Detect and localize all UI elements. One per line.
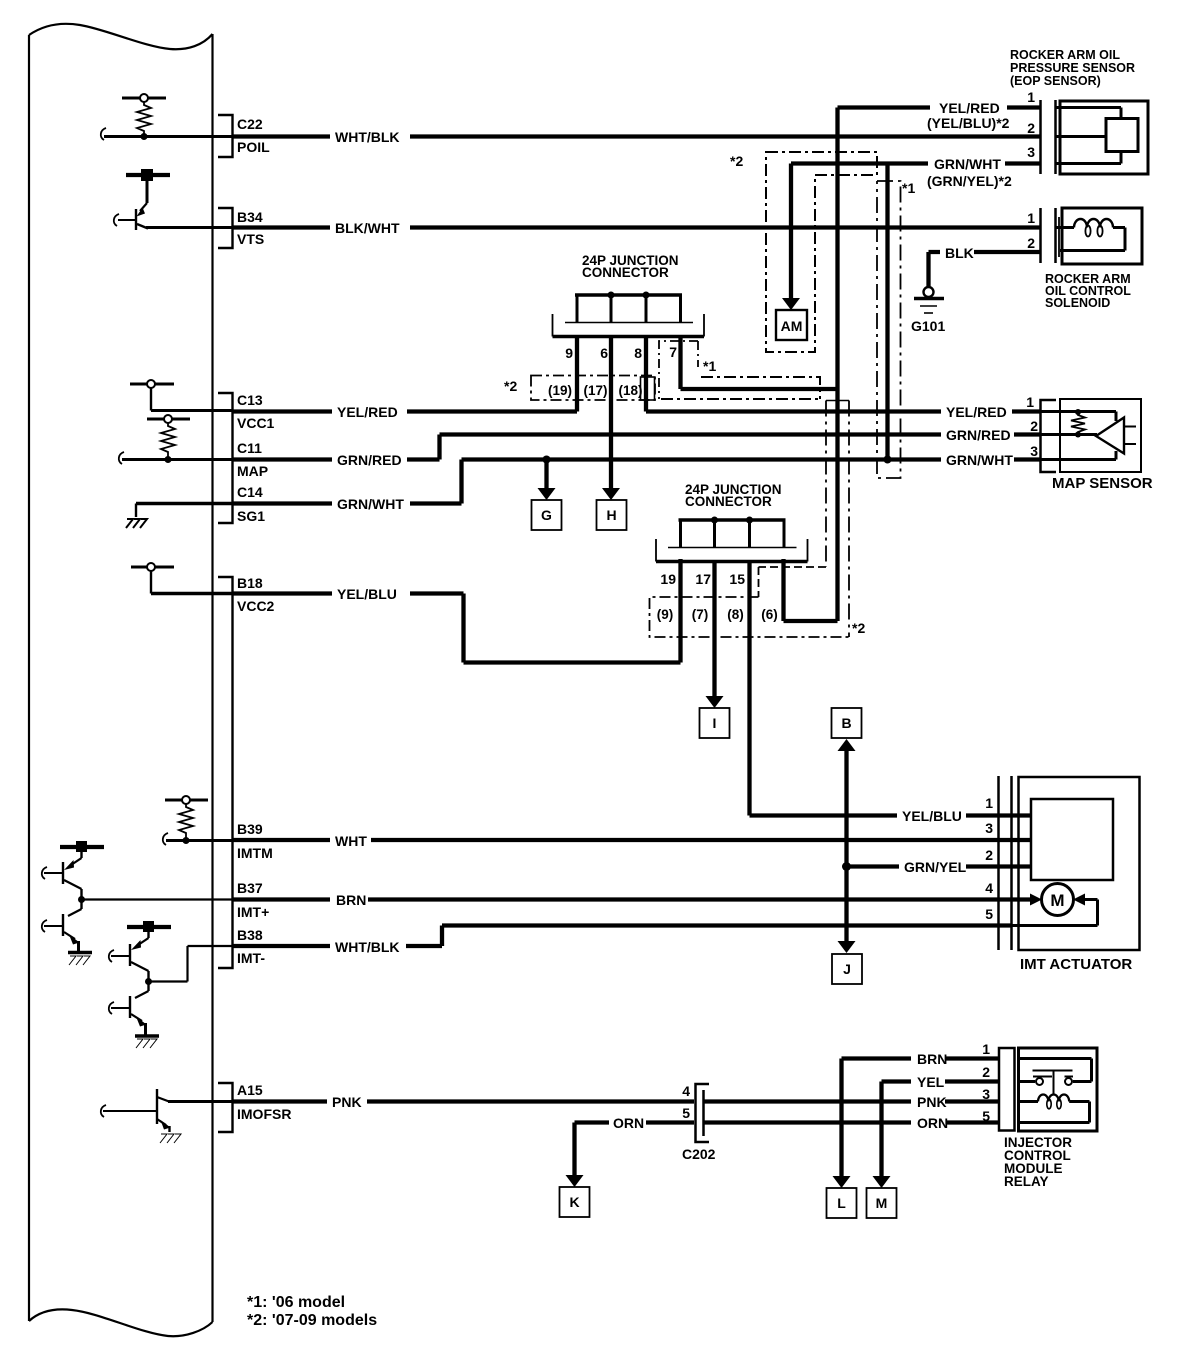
wire G branch xyxy=(544,460,548,490)
wire C14 internal xyxy=(136,502,233,506)
wire BLK to G101 xyxy=(929,250,1042,254)
ground at C14 (SG1) xyxy=(126,519,147,528)
svg-text:*2: *2 xyxy=(730,153,743,169)
svg-text:(EOP SENSOR): (EOP SENSOR) xyxy=(1010,74,1101,88)
wire B38 internal xyxy=(149,946,233,982)
wire B/J vertical with arrows xyxy=(844,750,848,944)
svg-text:C13: C13 xyxy=(237,392,263,408)
wire YEL/RED (EOP sensor pin 1) xyxy=(838,105,1042,109)
svg-text:C14: C14 xyxy=(237,484,263,500)
wire YEL (relay pin 2 to M) xyxy=(882,1079,1000,1083)
IMT actuator connector xyxy=(999,776,1012,950)
node GRN/WHT junction at MAP line xyxy=(884,456,892,464)
svg-text:MAP SENSOR: MAP SENSOR xyxy=(1052,475,1153,492)
connector C202 xyxy=(696,1084,710,1142)
connector box G xyxy=(532,500,562,530)
svg-text:VCC1: VCC1 xyxy=(237,415,275,431)
svg-text:A15: A15 xyxy=(237,1082,263,1098)
svg-text:YEL/BLU: YEL/BLU xyxy=(902,808,962,824)
node G junction xyxy=(543,456,551,464)
connector bracket C22 xyxy=(218,115,233,157)
svg-text:8: 8 xyxy=(634,345,642,361)
wire AM branch xyxy=(789,164,793,300)
connector bracket C13/C11/C14 xyxy=(218,393,233,523)
svg-text:2: 2 xyxy=(1027,120,1035,136)
pass-through pair on trunk xyxy=(826,400,849,402)
connector box I xyxy=(700,708,730,738)
svg-text:PNK: PNK xyxy=(917,1094,947,1110)
svg-text:PRESSURE SENSOR: PRESSURE SENSOR xyxy=(1010,61,1135,75)
svg-text:*2: '07-09 models: *2: '07-09 models xyxy=(247,1312,377,1329)
svg-text:(19): (19) xyxy=(548,383,572,398)
wire BRN (relay pin 1 to L) xyxy=(842,1056,1000,1060)
svg-text:3: 3 xyxy=(1030,443,1038,459)
wire pin 9 drop xyxy=(575,337,579,412)
wire C13 internal xyxy=(151,409,233,412)
connector box H xyxy=(597,500,627,530)
wire A15 internal xyxy=(168,1100,233,1103)
EOP sensor title xyxy=(1010,48,1135,88)
node MAP resistor junctions xyxy=(1075,409,1081,415)
svg-text:M: M xyxy=(876,1195,888,1211)
svg-text:(YEL/BLU)*2: (YEL/BLU)*2 xyxy=(927,115,1010,131)
wire GRN/WHT (C14 SG1) xyxy=(233,460,1042,504)
wire pin 17 drop to I xyxy=(712,562,716,698)
svg-text:CONNECTOR: CONNECTOR xyxy=(685,494,772,509)
connector box K xyxy=(560,1187,590,1217)
svg-text:G: G xyxy=(541,507,552,523)
svg-text:(GRN/YEL)*2: (GRN/YEL)*2 xyxy=(927,173,1012,189)
svg-text:G101: G101 xyxy=(911,318,945,334)
svg-text:5: 5 xyxy=(682,1105,690,1121)
wire B34 internal xyxy=(146,226,233,229)
relay pin numbers xyxy=(982,1041,990,1124)
svg-text:B18: B18 xyxy=(237,575,263,591)
svg-text:WHT/BLK: WHT/BLK xyxy=(335,129,400,145)
connector bracket B18/B39/B37/B38 xyxy=(218,577,233,968)
svg-text:IMT+: IMT+ xyxy=(237,904,269,920)
rocker arm oil control solenoid (coil) xyxy=(1056,208,1143,264)
node GRN/YEL junction xyxy=(842,862,851,871)
connector bracket A15 xyxy=(218,1083,233,1132)
svg-text:GRN/YEL: GRN/YEL xyxy=(904,859,967,875)
svg-text:1: 1 xyxy=(985,795,993,811)
pin label B37 / IMT+ xyxy=(237,880,269,920)
svg-text:7: 7 xyxy=(669,344,677,360)
alternate pins box (19)(17)(18) xyxy=(531,376,655,401)
svg-text:GRN/RED: GRN/RED xyxy=(946,427,1011,443)
svg-text:5: 5 xyxy=(985,906,993,922)
svg-text:*1: '06 model: *1: '06 model xyxy=(247,1294,345,1311)
terminal VCC2 xyxy=(131,563,174,594)
pin label C14 / SG1 xyxy=(237,484,265,524)
svg-text:3: 3 xyxy=(985,820,993,836)
svg-text:6: 6 xyxy=(600,345,608,361)
alternate pins box (9)(7)(8)(6) xyxy=(650,597,849,637)
svg-text:M: M xyxy=(1050,891,1064,910)
motor M in IMT actuator xyxy=(1030,894,1042,906)
svg-text:9: 9 xyxy=(565,345,573,361)
node junction connector 2 bus dots xyxy=(711,517,718,524)
svg-text:YEL/RED: YEL/RED xyxy=(337,404,398,420)
MAP sensor pin numbers xyxy=(1026,394,1038,459)
resistor pull-up at B39 xyxy=(165,796,208,840)
wire YEL/RED (C13 VCC1 to junction connector pin 9) xyxy=(233,409,578,413)
wire GRN/YEL branch to IMT pin 2 xyxy=(847,864,1032,868)
svg-text:ORN: ORN xyxy=(613,1115,644,1131)
svg-text:BRN: BRN xyxy=(917,1051,947,1067)
svg-text:SG1: SG1 xyxy=(237,508,265,524)
connector box B xyxy=(832,708,862,738)
svg-text:RELAY: RELAY xyxy=(1004,1174,1049,1189)
svg-text:(8): (8) xyxy=(727,607,744,622)
svg-text:VTS: VTS xyxy=(237,231,264,247)
svg-text:GRN/WHT: GRN/WHT xyxy=(946,452,1013,468)
svg-text:YEL/RED: YEL/RED xyxy=(946,404,1007,420)
wire B39 internal xyxy=(166,839,233,842)
svg-text:(9): (9) xyxy=(657,607,674,622)
IMT actuator title xyxy=(1020,956,1132,973)
wire WHT/BLK (B38 IMT- to IMT actuator pin 5) xyxy=(233,926,1013,947)
svg-text:BLK: BLK xyxy=(945,245,974,261)
svg-text:GRN/WHT: GRN/WHT xyxy=(337,496,404,512)
svg-text:2: 2 xyxy=(1027,235,1035,251)
svg-text:BRN: BRN xyxy=(336,892,366,908)
wire PNK (A15 IMOFSR to relay pin 3) xyxy=(233,1099,1000,1103)
svg-text:L: L xyxy=(837,1195,846,1211)
connector box M xyxy=(867,1188,897,1218)
wire GRN/WHT label at MAP xyxy=(946,427,1013,468)
wire BLK/WHT (B34 VTS to solenoid) xyxy=(233,225,1042,229)
svg-text:17: 17 xyxy=(695,571,711,587)
svg-text:J: J xyxy=(843,961,851,977)
pin numbers 9 6 8 7 xyxy=(565,344,677,361)
svg-text:IMT ACTUATOR: IMT ACTUATOR xyxy=(1020,956,1132,973)
svg-text:(7): (7) xyxy=(692,607,709,622)
connector box L xyxy=(827,1188,857,1218)
svg-text:*2: *2 xyxy=(852,620,865,636)
svg-text:*1: *1 xyxy=(703,358,716,374)
svg-text:POIL: POIL xyxy=(237,139,270,155)
svg-text:15: 15 xyxy=(729,571,745,587)
svg-text:ROCKER ARM OIL: ROCKER ARM OIL xyxy=(1010,48,1120,62)
alternate enclosure *2 around AM xyxy=(766,152,877,352)
svg-text:GRN/WHT: GRN/WHT xyxy=(934,156,1001,172)
node C22 junction xyxy=(141,133,148,140)
svg-text:I: I xyxy=(713,715,717,731)
svg-text:WHT: WHT xyxy=(335,833,367,849)
solenoid pin numbers xyxy=(1027,210,1035,251)
alternate enclosure around pin 7 xyxy=(659,341,698,399)
svg-text:YEL/RED: YEL/RED xyxy=(939,100,1000,116)
MAP sensor connector xyxy=(1041,400,1057,472)
svg-text:B39: B39 xyxy=(237,821,263,837)
node B39 junction xyxy=(183,837,190,844)
svg-text:*2: *2 xyxy=(504,378,517,394)
svg-text:IMTM: IMTM xyxy=(237,845,273,861)
svg-text:4: 4 xyxy=(985,880,993,896)
wire K branch xyxy=(572,1123,576,1177)
IMT actuator pin numbers xyxy=(985,795,993,922)
svg-text:BLK/WHT: BLK/WHT xyxy=(335,220,400,236)
connector box J xyxy=(832,954,862,984)
wire C11 internal xyxy=(122,458,233,461)
wire pin 15 drop to IMT pin 1 xyxy=(750,562,898,816)
EOP sensor pin numbers xyxy=(1027,89,1035,160)
svg-text:H: H xyxy=(606,507,616,523)
terminal VCC1 xyxy=(130,380,174,411)
pin label B38 / IMT- xyxy=(237,927,265,966)
svg-text:SOLENOID: SOLENOID xyxy=(1045,296,1110,310)
node Q3 collector junction xyxy=(145,978,152,985)
wire B37 internal xyxy=(82,898,233,900)
transistor pair Q3/Q4 (IMT-) xyxy=(109,921,171,1048)
connector box AM xyxy=(776,310,807,340)
svg-text:1: 1 xyxy=(1027,210,1035,226)
pin numbers 19 17 15 xyxy=(660,571,745,587)
svg-text:B: B xyxy=(841,715,851,731)
svg-text:YEL: YEL xyxy=(917,1074,945,1090)
wire GRN/WHT (EOP sensor pin 3) xyxy=(791,161,1041,165)
wire WHT (B39 IMTM to IMT actuator pin 3) xyxy=(233,838,1032,842)
svg-text:VCC2: VCC2 xyxy=(237,598,275,614)
svg-text:YEL/BLU: YEL/BLU xyxy=(337,586,397,602)
pin label B34 / VTS xyxy=(237,209,264,247)
svg-text:AM: AM xyxy=(781,318,803,334)
24P junction connector 1 xyxy=(553,295,705,337)
svg-text:C22: C22 xyxy=(237,116,263,132)
node junction connector 1 bus dots xyxy=(608,292,615,299)
wire GRN/WHT vertical to MAP sensor line xyxy=(885,164,889,460)
svg-text:ORN: ORN xyxy=(917,1115,948,1131)
svg-text:IMOFSR: IMOFSR xyxy=(237,1106,291,1122)
node C11 junction xyxy=(165,456,172,463)
svg-text:1: 1 xyxy=(1027,89,1035,105)
svg-text:B37: B37 xyxy=(237,880,263,896)
pin label A15 / IMOFSR xyxy=(237,1082,291,1122)
pin label B18 / VCC2 xyxy=(237,575,275,614)
svg-text:2: 2 xyxy=(1030,418,1038,434)
EOP sensor (pressure switch) xyxy=(1056,101,1149,174)
injector control module relay xyxy=(1019,1048,1098,1131)
svg-text:IMT-: IMT- xyxy=(237,950,265,966)
transistor at A15 xyxy=(101,1089,181,1143)
notes xyxy=(247,1294,377,1329)
wire C22 internal xyxy=(104,135,233,138)
svg-text:B38: B38 xyxy=(237,927,263,943)
pass-through box at pin 8 drop xyxy=(641,377,655,400)
MAP sensor title xyxy=(1052,475,1153,492)
pin label C13 / VCC1 xyxy=(237,392,275,431)
svg-text:5: 5 xyxy=(982,1108,990,1124)
svg-text:*1: *1 xyxy=(902,180,915,196)
pin label B39 / IMTM xyxy=(237,821,273,861)
resistor pull-up at C11 xyxy=(147,415,190,459)
svg-text:4: 4 xyxy=(682,1083,690,1099)
pin label C22 / POIL xyxy=(237,116,270,155)
wire ORN (C202 pin 5 to relay pin 5 and K) xyxy=(575,1120,1000,1124)
svg-text:GRN/RED: GRN/RED xyxy=(337,452,402,468)
svg-text:PNK: PNK xyxy=(332,1094,362,1110)
svg-text:3: 3 xyxy=(1027,144,1035,160)
alternate enclosure *1 near EOP xyxy=(877,181,901,478)
svg-text:2: 2 xyxy=(982,1064,990,1080)
wire YEL/BLU (B18 VCC2 to junction connector pin 19) xyxy=(233,559,681,663)
svg-text:B34: B34 xyxy=(237,209,263,225)
svg-text:C11: C11 xyxy=(237,440,262,456)
resistor pull-up at C22 xyxy=(122,94,166,134)
relay connector xyxy=(999,1048,1015,1131)
svg-text:19: 19 xyxy=(660,571,676,587)
transistor driver at B34 xyxy=(114,169,170,230)
MAP sensor xyxy=(1041,399,1141,472)
svg-text:MAP: MAP xyxy=(237,463,268,479)
IMT actuator xyxy=(1012,777,1140,950)
node Q1 collector junction xyxy=(78,896,85,903)
svg-text:C202: C202 xyxy=(682,1146,716,1162)
solenoid title xyxy=(1045,272,1131,310)
svg-text:3: 3 xyxy=(982,1086,990,1102)
wire junction connector 1 pin 7 branch xyxy=(681,336,838,389)
svg-text:WHT/BLK: WHT/BLK xyxy=(335,939,400,955)
24P junction connector 2 xyxy=(656,520,808,562)
pin label C11 / MAP xyxy=(237,440,268,479)
connector bracket B34 xyxy=(218,208,233,248)
wire B18 internal xyxy=(151,592,233,596)
solenoid connector xyxy=(1041,208,1056,263)
wire GRN/RED (C11 MAP) xyxy=(233,435,1042,460)
svg-text:(17): (17) xyxy=(583,383,607,398)
wire BRN (B37 IMT+ to IMT actuator pin 4) xyxy=(233,897,1037,901)
svg-text:1: 1 xyxy=(982,1041,990,1057)
svg-text:K: K xyxy=(569,1194,579,1210)
wire WHT/BLK (C22 POIL to EOP sensor) xyxy=(233,134,1042,138)
wire vertical trunk from EOP pin 1 to junction connector (6) xyxy=(784,108,838,622)
relay title xyxy=(1004,1135,1072,1189)
svg-text:1: 1 xyxy=(1026,394,1034,410)
svg-text:CONNECTOR: CONNECTOR xyxy=(582,265,669,280)
svg-text:(18): (18) xyxy=(618,383,642,398)
ground G101 xyxy=(914,287,944,313)
svg-text:2: 2 xyxy=(985,847,993,863)
EOP sensor connector xyxy=(1041,100,1056,174)
wire pin 8 drop to MAP YEL/RED line xyxy=(646,337,1041,412)
svg-text:(6): (6) xyxy=(761,607,778,622)
wire pin 6 drop to H xyxy=(609,337,613,490)
transistor pair Q1/Q2 (IMT+) xyxy=(42,841,104,965)
ECM/PCM module strip (torn edges) xyxy=(29,24,213,1336)
alternate route dash-dot pair to trunk xyxy=(701,377,820,399)
